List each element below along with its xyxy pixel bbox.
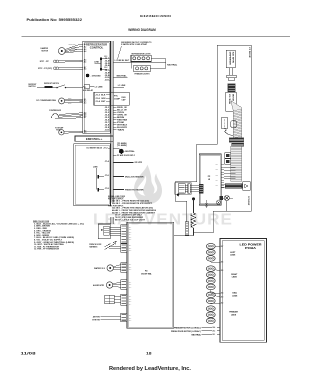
svg-text:FZ LT SW: FZ LT SW: [224, 119, 226, 129]
svg-text:11/08: 11/08: [21, 351, 37, 356]
svg-text:DELI: DELI: [233, 293, 238, 295]
switch S2 dispenser switch: [221, 118, 227, 129]
footer date: [21, 351, 37, 356]
title model number: [140, 14, 172, 18]
LED array left: [206, 243, 216, 262]
wire harness to door: [110, 227, 121, 235]
wire neutral to LED board: [192, 333, 220, 336]
svg-text:8. VIO - VIOLET DC SUPPLY: 8. VIO - VIOLET DC SUPPLY: [34, 240, 63, 242]
relay K2 MLB relay: [83, 85, 104, 92]
svg-text:L1 LINE: L1 LINE: [95, 86, 104, 88]
svg-text:J2-1: J2-1: [129, 245, 132, 247]
svg-text:Rendered by LeadVenture, Inc.: Rendered by LeadVenture, Inc.: [109, 366, 192, 372]
switch S3 chute switches: [225, 153, 231, 165]
connector CN7 hanging: [185, 222, 188, 235]
svg-text:J5-7: J5-7: [216, 180, 219, 182]
svg-text:WHT/YEL: WHT/YEL: [70, 51, 77, 53]
connector J4 J1 J6 left pin labels: [80, 43, 87, 134]
valve DC water valve row: [87, 147, 111, 150]
svg-text:GRN: GRN: [101, 98, 105, 100]
svg-text:J1-6: J1-6: [95, 98, 100, 100]
label ice chute vertical: [247, 196, 249, 206]
svg-text:J3-6: J3-6: [105, 119, 110, 121]
svg-text:CONTROL: CONTROL: [90, 46, 104, 50]
LED array freezer: [206, 306, 215, 324]
wire neutral stub: [113, 75, 127, 78]
svg-text:MOTOR: MOTOR: [42, 51, 50, 53]
svg-text:J2-2: J2-2: [129, 229, 132, 231]
svg-text:J3-9: J3-9: [105, 127, 110, 129]
connector ice dispenser grid: [105, 295, 121, 303]
svg-text:J2-3: J2-3: [129, 250, 132, 252]
op-board U4 LED power PCBA: [220, 238, 267, 342]
note grounding annotation: [117, 41, 152, 60]
svg-text:LINE: LINE: [93, 166, 98, 168]
svg-text:WHT/ORG: WHT/ORG: [69, 44, 76, 46]
module water filter: [243, 182, 251, 190]
svg-text:J3-7: J3-7: [105, 122, 110, 124]
title wiring diagram: [128, 28, 156, 32]
svg-text:L1 LINE BL WHT: L1 LINE BL WHT: [115, 60, 130, 62]
svg-text:BRN: BRN: [117, 117, 124, 119]
svg-text:J2-9: J2-9: [105, 75, 110, 77]
node line tree: [93, 166, 98, 189]
svg-text:J2-1: J2-1: [104, 56, 107, 58]
svg-text:FRESH FOOD MOTOR ( LOW AC ): FRESH FOOD MOTOR ( LOW AC ): [171, 330, 201, 333]
svg-text:J9-3: J9-3: [212, 331, 215, 333]
motor M1 damper motor: [41, 44, 80, 54]
compressor B1: [49, 110, 83, 119]
thermistor RT1 NTC-FF: [40, 60, 83, 63]
junction node A: [177, 193, 179, 196]
svg-text:NEUTRAL: NEUTRAL: [117, 75, 127, 78]
svg-text:J9-1: J9-1: [212, 334, 215, 336]
svg-text:J2-1: J2-1: [129, 282, 132, 284]
svg-text:NTC - FF: NTC - FF: [40, 61, 49, 63]
svg-text:J5-9: J5-9: [216, 185, 219, 187]
wire dispenser leads: [230, 68, 233, 75]
svg-text:J3-5: J3-5: [105, 117, 110, 119]
svg-text:8B 1P - LITTLE ICE CUP LIGHT: 8B 1P - LITTLE ICE CUP LIGHT: [115, 219, 145, 221]
svg-text:7. BLU - BLUE DC GND (COMM L: 7. BLU - BLUE DC GND (COMM LINES): [34, 237, 75, 239]
LED array right: [206, 266, 216, 293]
svg-text:RED: RED: [68, 98, 72, 100]
svg-text:WHT/BLK: WHT/BLK: [117, 124, 128, 126]
svg-text:LEDS: LEDS: [232, 277, 238, 279]
svg-text:J2-7: J2-7: [105, 70, 110, 72]
svg-text:WHT/BRN: WHT/BRN: [70, 49, 77, 51]
svg-text:J2-5: J2-5: [129, 237, 132, 239]
label EMF0500 banner: [75, 136, 113, 141]
wire UI to ribbon: [224, 168, 235, 179]
pin labels door connectors: [129, 227, 132, 322]
svg-text:J2-3: J2-3: [129, 232, 132, 234]
svg-text:J6-1: J6-1: [84, 99, 87, 101]
connector P3: [121, 263, 127, 273]
svg-text:WTR RTN: WTR RTN: [92, 319, 100, 321]
svg-text:LEFT: LEFT: [230, 252, 236, 254]
lamp group refrigerator lights: [131, 52, 166, 68]
svg-text:3. RED - RED: 3. RED - RED: [34, 228, 48, 230]
svg-text:J6-2: J6-2: [84, 101, 87, 103]
svg-text:J2-5: J2-5: [105, 63, 110, 65]
connector P4: [121, 280, 127, 289]
connector CN6 on UI: [199, 184, 203, 193]
wire heater to door box: [174, 235, 194, 237]
svg-text:COMPRESSOR: COMPRESSOR: [49, 110, 62, 112]
svg-text:6. GRN - GREEN: 6. GRN - GREEN: [34, 235, 50, 237]
svg-text:J3-6: J3-6: [221, 262, 224, 264]
svg-text:MOTOR: MOTOR: [231, 94, 233, 101]
svg-text:J3-3: J3-3: [105, 112, 110, 114]
dispenser board A1: [226, 50, 235, 67]
svg-text:FZ DOOR: FZ DOOR: [248, 48, 250, 59]
svg-text:J2-8: J2-8: [105, 72, 110, 74]
label FZ door vertical: [248, 48, 250, 59]
note wire color code legend: [33, 221, 85, 251]
svg-text:J3-2: J3-2: [105, 110, 110, 112]
wire air return: [93, 315, 121, 318]
wire L1 line to lights: [113, 60, 165, 63]
connector dark bar CN3: [232, 143, 244, 146]
footer page number: [146, 351, 152, 356]
svg-text:LEDS: LEDS: [232, 295, 238, 297]
wire water return: [92, 319, 121, 321]
svg-text:J2-6: J2-6: [105, 65, 110, 67]
svg-text:ICE CRUSH: ICE CRUSH: [228, 94, 230, 104]
lamp group freezer lights: [134, 64, 177, 76]
svg-text:GRN_W: GRN_W: [117, 115, 127, 117]
label freezer leds: [229, 312, 238, 317]
svg-text:5. YEL - YELLOW: 5. YEL - YELLOW: [34, 233, 51, 235]
wire UI left harness: [185, 186, 199, 192]
connector CN5: [188, 184, 191, 193]
svg-text:FREEZER LIGHTS: FREEZER LIGHTS: [135, 74, 150, 76]
header rule: [22, 35, 291, 37]
svg-text:ICE WTR: ICE WTR: [232, 52, 234, 63]
wire main harness bus: [111, 41, 114, 224]
svg-text:LED POWER: LED POWER: [240, 242, 262, 246]
lamp DS2 aux light: [205, 200, 221, 208]
module ice crusher: [226, 92, 237, 111]
svg-text:PINS FOR INPUT:: PINS FOR INPUT:: [108, 205, 124, 207]
label deli leds: [232, 293, 238, 298]
connector CN8 striped: [221, 184, 242, 189]
svg-text:NEUTRAL: NEUTRAL: [192, 333, 202, 336]
svg-text:FZ: FZ: [145, 271, 148, 273]
op-board U1 refrigerator control: [83, 41, 111, 133]
wire FZ air door supply: [113, 154, 136, 157]
relay K1 line relay: [94, 56, 107, 70]
wire fresh food heater: [97, 188, 144, 192]
svg-text:RUN: RUN: [122, 97, 126, 99]
wire door heater: [105, 160, 144, 164]
svg-text:J2-6: J2-6: [129, 239, 132, 241]
compressor PTC start relay block: [94, 92, 129, 105]
title publication number: [27, 18, 83, 22]
svg-text:6B 1P - DOMESTIC DIY ONLY: 6B 1P - DOMESTIC DIY ONLY: [115, 215, 143, 217]
connector J10 interface box: [98, 224, 110, 239]
svg-text:LEDS: LEDS: [230, 255, 236, 257]
op-board U3 dispenser UI: [199, 154, 224, 205]
connector T-bar: [227, 75, 236, 81]
connector dark bar CN2: [229, 138, 243, 142]
svg-text:J3-7: J3-7: [221, 246, 224, 248]
svg-text:J1-1: J1-1: [84, 87, 87, 89]
ground junction: [86, 74, 102, 78]
svg-text:J3-3: J3-3: [221, 296, 224, 298]
svg-text:DEFROST SWITCH: DEFROST SWITCH: [44, 83, 59, 85]
label right leds: [231, 274, 238, 279]
motor M4 auger motor: [93, 282, 121, 288]
svg-text:J2-11: J2-11: [105, 80, 110, 82]
svg-text:J3-2: J3-2: [221, 303, 224, 305]
wire mullion heater: [97, 175, 144, 179]
connector J3 pin labels: [105, 107, 129, 131]
svg-text:J2-2: J2-2: [129, 317, 132, 319]
svg-text:LEDS: LEDS: [231, 314, 237, 316]
svg-text:ICE CHUTE HTR: ICE CHUTE HTR: [190, 214, 192, 228]
LED array deli: [206, 292, 216, 304]
connector P2: [121, 244, 127, 253]
svg-text:J2-3: J2-3: [129, 287, 132, 289]
svg-text:EI23BC36I0: EI23BC36I0: [140, 14, 172, 18]
svg-text:J3-5: J3-5: [221, 270, 224, 272]
svg-text:J2-1: J2-1: [129, 227, 132, 229]
label left leds: [230, 252, 236, 257]
svg-text:FREEZER MOTOR ( LOW AC ): FREEZER MOTOR ( LOW AC ): [174, 326, 201, 329]
svg-text:PCBA: PCBA: [245, 246, 256, 250]
svg-text:J6-7: J6-7: [84, 117, 87, 119]
wire fresh food motor low ac: [171, 330, 220, 333]
svg-text:NEUTRAL: NEUTRAL: [125, 150, 135, 153]
svg-text:FREEZER: FREEZER: [229, 312, 238, 314]
svg-text:J5-5: J5-5: [216, 174, 219, 176]
connector J2 pin labels: [105, 58, 111, 82]
svg-text:J2-3: J2-3: [129, 269, 132, 271]
motor M2 DC condenser fan: [36, 98, 82, 104]
svg-text:J6-9: J6-9: [84, 132, 87, 134]
connector P5: [121, 294, 127, 305]
svg-text:J1-3: J1-3: [95, 94, 100, 96]
connector P6: [121, 313, 127, 322]
svg-text:12. PNK - FF THERMISTOR: 12. PNK - FF THERMISTOR: [34, 249, 60, 251]
svg-text:FZ DOOR: FZ DOOR: [247, 196, 249, 206]
wire freezer motor low ac: [174, 326, 220, 329]
valve water valve: [94, 265, 121, 271]
wire zigzag to connector: [225, 128, 233, 135]
enclosure freezer door outline: [175, 45, 251, 232]
svg-text:J2-2: J2-2: [129, 267, 132, 269]
harness arrow from FZ door: [89, 241, 121, 249]
svg-text:NTC - FZ (RC): NTC - FZ (RC): [38, 68, 53, 70]
svg-text:WHT: WHT: [68, 102, 72, 104]
svg-text:J7-2: J7-2: [103, 148, 107, 150]
svg-text:Publication No: 5995555322: Publication No: 5995555322: [27, 18, 83, 22]
enclosure FZ door assembly: [127, 222, 174, 328]
lamp DS1 dispenser light: [220, 195, 233, 211]
connector P1: [121, 225, 127, 244]
svg-text:BLU/GRY: BLU/GRY: [117, 127, 127, 129]
svg-text:7B 1P - ICE CUBE DISPENSER: 7B 1P - ICE CUBE DISPENSER: [115, 217, 144, 219]
svg-text:DEFROST: DEFROST: [28, 84, 36, 86]
junction node B: [192, 197, 195, 200]
footer rendered-by: [109, 366, 192, 372]
svg-text:WHT: WHT: [101, 101, 105, 103]
switch S1 defrost switch: [28, 83, 82, 88]
svg-text:2. BRN - BROWN: 2. BRN - BROWN: [34, 226, 51, 228]
svg-text:BLK: BLK: [68, 100, 72, 102]
watermark flame logo: [134, 165, 162, 204]
svg-text:L1 LINE: L1 LINE: [118, 85, 127, 87]
svg-text:BLU_W: BLU_W: [117, 110, 128, 112]
svg-text:J2-2: J2-2: [104, 67, 107, 69]
svg-text:18: 18: [146, 351, 152, 356]
svg-text:J2-2: J2-2: [129, 298, 132, 300]
motor M3 FZ evaporator fan: [55, 126, 83, 135]
ribbon cable lower: [231, 146, 242, 181]
ribbon cable upper: [231, 101, 242, 138]
svg-text:J2-2: J2-2: [129, 248, 132, 250]
svg-text:J6-3: J6-3: [84, 102, 87, 104]
svg-text:FRENCH DOOR: FRENCH DOOR: [89, 244, 101, 246]
op-board U2 dispenser control: [74, 144, 111, 206]
svg-text:RED_W: RED_W: [117, 107, 128, 109]
svg-text:J2-3: J2-3: [105, 58, 110, 60]
svg-text:J2-3: J2-3: [129, 301, 132, 303]
connector J3 LED pins: [217, 246, 224, 305]
svg-text:J5-1: J5-1: [216, 164, 219, 166]
svg-text:J2-2: J2-2: [129, 284, 132, 286]
svg-text:WIRING DIAGRAM: WIRING DIAGRAM: [128, 28, 156, 32]
svg-text:J2-1: J2-1: [129, 296, 132, 298]
svg-text:WHT/RED: WHT/RED: [70, 46, 77, 48]
thermistor RT2 NTC-FZ: [38, 67, 83, 70]
svg-text:J2-1: J2-1: [129, 315, 132, 317]
svg-text:J2-1: J2-1: [129, 264, 132, 266]
svg-text:PIN TOP OUTPUT:: PIN TOP OUTPUT:: [108, 198, 124, 200]
svg-text:NEUTRAL: NEUTRAL: [167, 64, 177, 67]
svg-text:EMF0500++: EMF0500++: [86, 138, 103, 141]
svg-text:DISPENSER: DISPENSER: [229, 52, 231, 65]
svg-text:DR HTR: DR HTR: [135, 162, 144, 164]
note signal line legend: [108, 195, 156, 222]
connector CN4: [175, 183, 192, 195]
svg-text:- GROUND: - GROUND: [91, 75, 102, 77]
svg-text:RIGHT: RIGHT: [231, 274, 238, 276]
watermark text: [93, 212, 233, 229]
svg-text:J3-8: J3-8: [105, 124, 110, 126]
svg-text:J3-1: J3-1: [105, 107, 110, 109]
junction neutral to-main: [113, 142, 134, 154]
svg-text:J3-10: J3-10: [105, 129, 110, 131]
svg-text:J2-3: J2-3: [129, 320, 132, 322]
svg-text:J5-3: J5-3: [216, 169, 219, 171]
svg-text:J7-6: J7-6: [105, 175, 109, 177]
heater R1 ice chute heater: [190, 199, 196, 236]
svg-text:J2-10: J2-10: [105, 77, 110, 79]
wire L1 line stub: [113, 85, 126, 87]
svg-text:SWITCH: SWITCH: [28, 86, 35, 88]
connector dark block CN1: [228, 84, 235, 93]
svg-text:J7-8: J7-8: [105, 188, 109, 190]
module aux box: [231, 121, 236, 127]
